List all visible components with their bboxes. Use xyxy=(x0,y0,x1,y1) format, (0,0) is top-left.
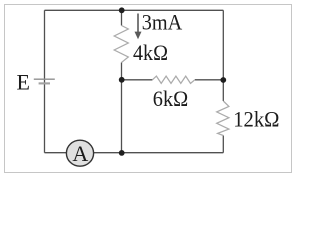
wire bottom rail xyxy=(45,152,224,154)
wire middle horizontal left of 6k resistor xyxy=(122,79,153,81)
border frame (decorative) xyxy=(5,5,292,173)
svg-text:6kΩ: 6kΩ xyxy=(153,86,188,111)
ammeter A xyxy=(66,140,93,166)
node dot middle-left (junction 4k / 6k / middle branch) xyxy=(119,77,125,83)
resistor R2 6k ohm (zigzag) xyxy=(152,76,194,83)
resistor R3 12k ohm (zigzag) xyxy=(217,101,229,136)
wire left branch (source branch) xyxy=(44,10,46,152)
svg-text:E: E xyxy=(17,70,30,95)
node dot top (junction of 4k branch with top rail) xyxy=(119,7,125,13)
node dot bottom (junction middle branch with bottom rail) xyxy=(119,150,125,156)
wire right branch upper segment xyxy=(222,10,224,101)
svg-text:3mA: 3mA xyxy=(142,10,183,35)
resistor R1 4k ohm (zigzag) xyxy=(114,26,128,63)
wire top: node B top rail xyxy=(45,9,224,11)
current arrow 3mA xyxy=(135,14,142,40)
wire middle horizontal right of 6k resistor xyxy=(195,79,224,81)
svg-text:4kΩ: 4kΩ xyxy=(133,40,168,65)
wire middle branch above 4k resistor xyxy=(121,10,123,25)
svg-text:A: A xyxy=(72,141,88,166)
battery E (voltage source) plates xyxy=(34,79,55,83)
wire right branch lower segment xyxy=(222,136,224,153)
svg-text:12kΩ: 12kΩ xyxy=(233,107,279,132)
node dot middle-right (junction 6k / 12k) xyxy=(220,77,226,83)
wire middle branch below 4k resistor down to bottom rail xyxy=(121,63,123,153)
